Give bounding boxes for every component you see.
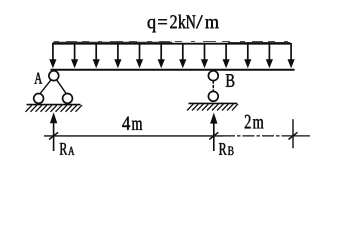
reaction arrow RA: [50, 112, 57, 151]
dimension line tail: [293, 135, 310, 137]
load arrow 2: [71, 43, 78, 68]
support A ground line: [27, 104, 81, 106]
label RA: [60, 143, 75, 155]
load arrow 1: [49, 43, 56, 68]
load arrow 10: [244, 43, 251, 68]
support A left roller: [34, 94, 44, 104]
tick at RB: [209, 132, 218, 139]
support B hatching: [187, 104, 238, 111]
load arrow 12: [288, 43, 295, 68]
load arrow 8: [201, 43, 208, 68]
distributed load top line: [52, 43, 291, 45]
reaction arrow RB: [210, 113, 217, 152]
load arrow 7: [179, 43, 186, 68]
node label B: [226, 74, 234, 87]
label 2m: [245, 115, 264, 129]
beam: [51, 69, 295, 71]
support A right roller: [63, 94, 73, 104]
support A hinge circle: [49, 71, 59, 81]
tick at RA: [49, 132, 58, 139]
load arrow 5: [136, 43, 143, 68]
support A left leg: [40, 80, 52, 95]
support A hatching: [26, 105, 83, 112]
load line smudge: [53, 41, 172, 43]
support A right leg: [57, 80, 67, 95]
support B roller: [208, 91, 218, 101]
load arrow 9: [223, 43, 230, 68]
node label A: [34, 73, 42, 84]
right extension line: [292, 119, 294, 148]
load arrow 11: [266, 43, 273, 68]
support B ground line: [189, 102, 238, 104]
support B hinge circle: [208, 71, 218, 81]
tick at right end: [289, 132, 298, 139]
support B link: [212, 80, 214, 91]
load arrow 4: [114, 43, 121, 68]
dimension line 2m span (dash-dot): [223, 135, 293, 137]
load arrow 6: [158, 43, 165, 68]
load arrow 3: [93, 43, 100, 68]
label 4m: [122, 117, 142, 130]
label RB: [219, 143, 234, 155]
dimension line 4m span: [44, 135, 223, 137]
label q=2kN/m: [148, 15, 219, 33]
